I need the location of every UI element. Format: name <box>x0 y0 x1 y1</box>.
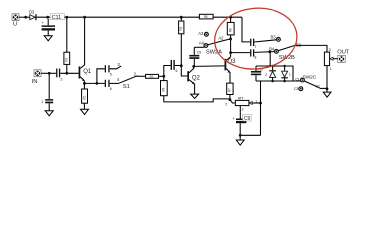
connector IN pad <box>32 70 41 85</box>
diode D3 <box>29 9 37 20</box>
wire riser to C5 <box>97 69 105 84</box>
svg-text:SW2B: SW2B <box>279 55 295 61</box>
capacitor C7 (series to Q2 base node) <box>171 60 178 73</box>
junction D2 top <box>271 65 273 67</box>
svg-text:C2: C2 <box>315 85 319 89</box>
svg-text:R2: R2 <box>82 96 86 100</box>
junction Q1 collector tap <box>83 16 86 19</box>
svg-text:3: 3 <box>242 108 244 112</box>
junction C9 bottom node <box>239 134 242 137</box>
svg-text:3: 3 <box>60 78 62 82</box>
junction R6 tap <box>229 16 232 19</box>
wire wiper riser to clipper <box>260 81 262 135</box>
label C9 (boxed value frame) <box>243 114 252 122</box>
wire B2 to volume pot <box>294 45 327 52</box>
junction input node <box>48 72 51 75</box>
junction caps tap <box>96 82 99 85</box>
wire pot pin3 stem <box>239 106 241 119</box>
resistor R7 (Q3 emitter) <box>227 83 233 99</box>
resistor R1 (rail to base) <box>64 17 70 73</box>
svg-text:B3: B3 <box>271 34 277 39</box>
wire C2 to Q1 base <box>60 72 78 74</box>
wire riser to C7 <box>164 66 171 77</box>
capacitor C9 (upper output cap) <box>250 39 276 50</box>
junction on R4 stem <box>180 64 183 67</box>
svg-text:R4: R4 <box>179 26 183 30</box>
svg-text:1: 1 <box>255 99 257 103</box>
switch SW2B <box>269 34 302 61</box>
svg-text:3: 3 <box>329 48 331 52</box>
ground under C11 <box>44 36 52 41</box>
svg-text:C9: C9 <box>244 116 251 122</box>
resistor R8 (node to bottom rail) <box>161 76 230 102</box>
svg-text:U: U <box>13 22 17 28</box>
wire Q3 base <box>194 65 225 68</box>
svg-text:2: 2 <box>265 73 267 77</box>
junction D2 bottom <box>271 80 274 83</box>
svg-text:R1: R1 <box>65 58 69 62</box>
transistor Q2 <box>187 66 200 94</box>
svg-text:7: 7 <box>254 45 256 49</box>
wire to ATT pot <box>230 100 235 103</box>
red annotation ellipse <box>212 4 300 73</box>
junction Q1 emitter node <box>83 82 86 85</box>
capacitor C5 (upper S1 cap) <box>105 65 112 76</box>
svg-text:C3: C3 <box>294 87 298 91</box>
wire IN to C2 <box>41 72 56 74</box>
capacitor C12 (across clipper) <box>251 66 263 81</box>
ground under Q2 <box>191 94 199 98</box>
svg-text:SW2C: SW2C <box>303 74 317 80</box>
svg-text:R6: R6 <box>229 28 233 32</box>
junction node after R3 <box>162 75 165 78</box>
resistor R5 (series on rail) <box>199 14 242 19</box>
junction D1 top <box>283 65 285 67</box>
svg-text:C1: C1 <box>295 77 299 81</box>
capacitor C8 (Q2 collector to SW2A-A4) <box>189 47 201 66</box>
svg-text:1: 1 <box>289 73 291 77</box>
svg-text:Q2: Q2 <box>192 76 201 82</box>
potentiometer ATT (horizontal) <box>225 97 260 107</box>
svg-text:A3: A3 <box>198 31 204 36</box>
svg-text:5: 5 <box>110 72 112 76</box>
svg-text:2: 2 <box>225 102 227 106</box>
svg-text:IN: IN <box>32 79 38 85</box>
wire rail end corner down to C9 <box>242 17 250 42</box>
switch SW2C <box>294 74 327 90</box>
junction D1 bottom <box>283 80 286 83</box>
ground under pot/SW2C <box>323 92 331 97</box>
svg-text:8: 8 <box>254 56 256 60</box>
potentiometer P1 (volume, vertical) <box>324 48 337 89</box>
label C11 (boxed value frame) <box>50 14 64 21</box>
wire top rail (V+ net) <box>37 16 200 18</box>
svg-text:1: 1 <box>330 67 332 71</box>
svg-text:S1: S1 <box>123 84 130 90</box>
junction R4 tap <box>180 16 183 19</box>
ground under C9 <box>236 140 244 145</box>
svg-text:OUT: OUT <box>337 49 349 55</box>
svg-text:R5: R5 <box>204 15 208 19</box>
junction riser at top wire <box>269 65 271 67</box>
capacitor C6 (lower S1 cap) <box>105 80 112 91</box>
junction clipper feed tap <box>268 50 271 53</box>
svg-text:C11: C11 <box>52 15 62 21</box>
diode D2 (clipper, pointing up) <box>265 66 276 81</box>
junction base node <box>65 72 68 75</box>
wire wiper return bottom <box>240 134 260 136</box>
junction bottom rail node <box>229 98 232 101</box>
wire A4 stub <box>194 46 204 48</box>
capacitor C10 (lower output cap) <box>250 49 274 59</box>
ground under C1 <box>45 111 53 116</box>
svg-text:R8: R8 <box>162 87 166 91</box>
wire clipper bottom rail <box>256 80 293 82</box>
connector OUT pad <box>337 49 349 62</box>
wire C7 to R4 stem <box>175 65 182 67</box>
svg-text:6: 6 <box>176 69 178 73</box>
wire C10 feed from C10-tap <box>231 52 251 54</box>
resistor R6 (rail to Q3 collector) <box>227 17 234 57</box>
capacitor C2 (series input cap) <box>56 69 62 82</box>
transistor Q3 <box>225 57 237 83</box>
junction A2 node <box>229 38 232 41</box>
svg-text:6: 6 <box>110 87 112 91</box>
wire U to D3 <box>19 16 30 18</box>
switch S1 <box>110 62 146 90</box>
transistor Q1 <box>79 17 92 83</box>
node dot after U <box>24 16 27 19</box>
wire emitter row <box>84 82 104 84</box>
svg-text:R3: R3 <box>150 75 154 79</box>
resistor R2 (Q1 emitter) <box>82 83 88 109</box>
capacitor C9 (electrolytic at ATT) <box>232 116 246 140</box>
svg-text:A2: A2 <box>218 36 224 41</box>
junction Q2 collector node <box>192 65 195 68</box>
svg-text:D3: D3 <box>29 9 35 14</box>
junction R1 tap <box>65 16 68 19</box>
svg-text:C9: C9 <box>197 50 201 54</box>
junction C10 tap node <box>229 51 232 54</box>
capacitor C11 (electrolytic to ground) <box>41 19 55 36</box>
junction wiper node <box>259 102 262 105</box>
capacitor C1 (shunt to ground) <box>41 73 53 110</box>
connector U (power pad) <box>12 14 19 28</box>
ground under R2 <box>81 109 89 114</box>
wire riser clipper feed <box>269 52 271 66</box>
resistor R4 (rail down to Q2 base) <box>179 17 188 76</box>
switch SW2A <box>198 31 230 56</box>
svg-text:1: 1 <box>41 100 43 104</box>
svg-text:R7: R7 <box>228 88 232 92</box>
wire clipper top rail <box>256 66 301 81</box>
diode D1 (clipper, pointing down) <box>281 66 291 81</box>
svg-text:Q1: Q1 <box>83 69 92 75</box>
junction C11 tap <box>46 16 49 19</box>
junction pot bottom / SW2C common <box>326 87 329 90</box>
resistor R3 (series after S1) <box>146 74 164 78</box>
